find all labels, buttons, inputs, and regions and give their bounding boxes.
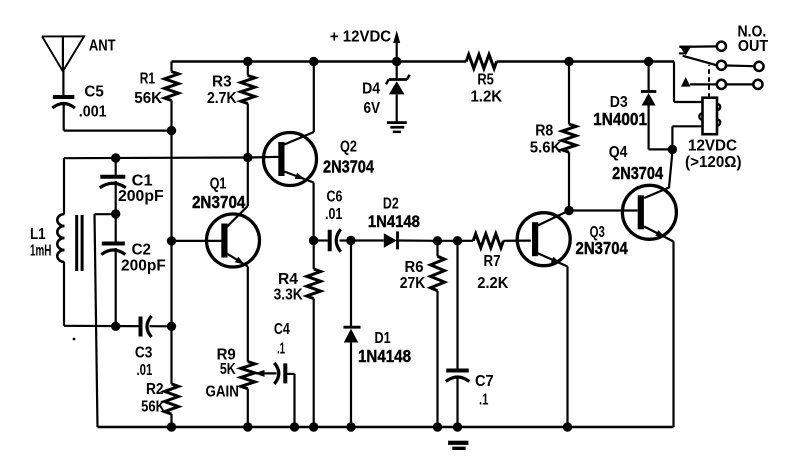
- svg-text:R5: R5: [477, 72, 494, 89]
- svg-text:D4: D4: [362, 81, 380, 98]
- svg-text:L1: L1: [30, 226, 46, 243]
- svg-text:6V: 6V: [364, 100, 381, 117]
- svg-text:200pF: 200pF: [118, 188, 164, 205]
- svg-text:(>120Ω): (>120Ω): [685, 154, 742, 171]
- svg-text:+ 12VDC: + 12VDC: [330, 29, 392, 46]
- svg-text:2N3704: 2N3704: [612, 163, 663, 183]
- svg-text:C3: C3: [135, 345, 153, 362]
- svg-text:R3: R3: [212, 74, 232, 91]
- svg-text:ANT: ANT: [89, 38, 116, 55]
- svg-text:R7: R7: [484, 253, 501, 270]
- svg-text:56K: 56K: [134, 90, 162, 107]
- svg-text:2N3704: 2N3704: [576, 238, 629, 258]
- svg-text:Q4: Q4: [609, 144, 628, 161]
- svg-text:R2: R2: [146, 381, 164, 398]
- svg-text:R4: R4: [278, 271, 298, 288]
- svg-text:GAIN: GAIN: [206, 384, 239, 401]
- svg-text:1mH: 1mH: [30, 243, 51, 260]
- svg-text:C6: C6: [327, 189, 343, 206]
- svg-text:3.3K: 3.3K: [274, 287, 303, 304]
- svg-text:1N4148: 1N4148: [358, 346, 411, 366]
- svg-text:.01: .01: [325, 206, 342, 223]
- svg-text:2.2K: 2.2K: [477, 275, 508, 292]
- svg-text:R6: R6: [405, 259, 424, 276]
- svg-text:OUT: OUT: [738, 38, 768, 55]
- svg-text:C5: C5: [84, 84, 103, 101]
- svg-text:27K: 27K: [400, 275, 426, 292]
- svg-text:2N3704: 2N3704: [192, 192, 246, 212]
- svg-text:R1: R1: [140, 71, 155, 88]
- svg-text:200pF: 200pF: [121, 258, 166, 275]
- svg-text:D2: D2: [383, 196, 399, 213]
- svg-text:Q2: Q2: [340, 139, 357, 156]
- svg-text:C7: C7: [475, 373, 494, 390]
- svg-text:C1: C1: [132, 173, 153, 190]
- svg-text:.1: .1: [479, 392, 488, 409]
- svg-text:C2: C2: [132, 242, 151, 259]
- svg-text:2N3704: 2N3704: [323, 157, 374, 177]
- svg-text:56K: 56K: [141, 399, 165, 416]
- svg-text:12VDC: 12VDC: [688, 138, 737, 155]
- svg-text:.1: .1: [277, 341, 285, 358]
- svg-text:5K: 5K: [220, 361, 236, 378]
- svg-text:1.2K: 1.2K: [470, 89, 502, 106]
- svg-text:C4: C4: [274, 321, 290, 338]
- svg-text:1N4148: 1N4148: [368, 212, 420, 231]
- svg-text:D1: D1: [375, 330, 391, 347]
- svg-text:2.7K: 2.7K: [207, 90, 237, 107]
- svg-text:1N4001: 1N4001: [593, 109, 647, 129]
- svg-text:R8: R8: [535, 123, 553, 140]
- svg-text:.01: .01: [136, 362, 152, 379]
- svg-text:Q1: Q1: [210, 176, 227, 193]
- svg-text:.001: .001: [79, 104, 107, 121]
- svg-text:5.6K: 5.6K: [530, 140, 562, 157]
